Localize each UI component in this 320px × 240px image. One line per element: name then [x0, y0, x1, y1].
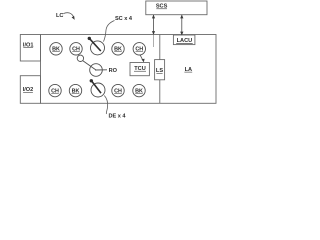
svg-text:SC x 4: SC x 4 [115, 16, 133, 22]
svg-text:DE x 4: DE x 4 [108, 113, 126, 119]
svg-text:RO: RO [109, 68, 118, 74]
svg-text:LC: LC [56, 13, 63, 19]
